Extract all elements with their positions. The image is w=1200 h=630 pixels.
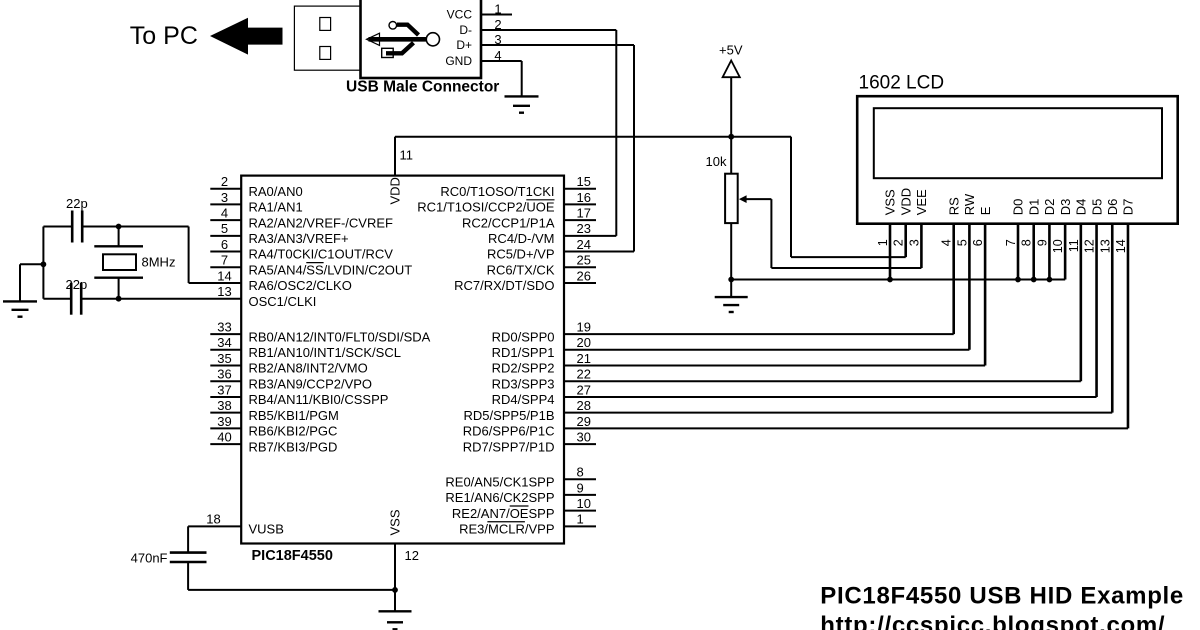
crystal X1 top plate bbox=[94, 245, 143, 247]
svg-text:RD3/SPP3: RD3/SPP3 bbox=[492, 376, 555, 391]
svg-text:RA5/AN4/SS/LVDIN/C2OUT: RA5/AN4/SS/LVDIN/C2OUT bbox=[249, 262, 413, 277]
svg-text:RD7/SPP7/P1D: RD7/SPP7/P1D bbox=[463, 439, 555, 454]
svg-text:26: 26 bbox=[577, 268, 591, 283]
svg-text:10: 10 bbox=[577, 496, 591, 511]
svg-text:6: 6 bbox=[971, 239, 985, 246]
svg-text:9: 9 bbox=[1035, 239, 1049, 246]
svg-text:14: 14 bbox=[1114, 239, 1128, 253]
svg-text:3: 3 bbox=[221, 190, 228, 205]
svg-text:RB5/KBI1/PGM: RB5/KBI1/PGM bbox=[249, 408, 339, 423]
wire LCD D4 riser bbox=[1080, 224, 1083, 382]
svg-text:1: 1 bbox=[876, 239, 890, 246]
USB trident arrowhead (left) bbox=[367, 33, 380, 45]
svg-text:RB4/AN11/KBI0/CSSPP: RB4/AN11/KBI0/CSSPP bbox=[249, 392, 389, 407]
wire crystal ground drop bbox=[19, 264, 21, 301]
wire wiper to VEE: down bbox=[770, 199, 772, 268]
USB male connector plug housing outline bbox=[294, 6, 360, 70]
svg-text:28: 28 bbox=[577, 398, 591, 413]
chip pin 3 stub (left) bbox=[210, 203, 241, 205]
svg-text:6: 6 bbox=[221, 237, 228, 252]
svg-text:8MHz: 8MHz bbox=[142, 254, 176, 269]
svg-text:13: 13 bbox=[217, 284, 231, 299]
USB trident small circle bbox=[389, 22, 397, 30]
svg-text:VDD: VDD bbox=[898, 188, 913, 215]
wire LCD RS riser bbox=[952, 224, 955, 334]
capacitor C3 plate bottom bbox=[170, 561, 207, 564]
svg-text:2: 2 bbox=[892, 239, 906, 246]
wire RC5 pin 24 horizontal bbox=[564, 251, 634, 253]
wire wiper to VEE: right2 bbox=[771, 267, 921, 269]
node +5V rail junction bbox=[728, 134, 734, 140]
USB trident stem bbox=[369, 37, 428, 42]
svg-text:7: 7 bbox=[1004, 239, 1018, 246]
wire OSC1 left segment bbox=[43, 298, 70, 300]
USB connector body box U1 bbox=[361, 0, 482, 78]
svg-text:VCC: VCC bbox=[447, 8, 473, 22]
svg-text:10: 10 bbox=[1051, 239, 1065, 253]
svg-text:24: 24 bbox=[577, 237, 591, 252]
svg-text:RC7/RX/DT/SDO: RC7/RX/DT/SDO bbox=[454, 278, 554, 293]
svg-text:D-: D- bbox=[459, 23, 472, 37]
wire LCD D7 riser bbox=[1127, 224, 1130, 429]
overbar UOE (RC1) bbox=[526, 199, 554, 201]
svg-text:RD6/SPP6/P1C: RD6/SPP6/P1C bbox=[463, 424, 555, 439]
svg-text:D4: D4 bbox=[1074, 199, 1089, 216]
svg-text:22: 22 bbox=[577, 367, 591, 382]
wire LCD ground rail bbox=[731, 279, 1065, 281]
node D0 ground junction bbox=[1015, 277, 1021, 283]
resistor RV1 10k potentiometer body bbox=[725, 174, 738, 223]
wire LCD VDD riser bbox=[904, 224, 907, 257]
svg-text:38: 38 bbox=[217, 398, 231, 413]
chip pin 39 stub (left) bbox=[210, 427, 241, 429]
capacitor C2 plate left bbox=[70, 283, 73, 315]
svg-text:4: 4 bbox=[221, 206, 228, 221]
wire LCD VSS riser bbox=[889, 224, 892, 280]
svg-text:12: 12 bbox=[405, 548, 419, 563]
wire VUSB pin 18 bbox=[188, 525, 241, 527]
svg-text:PIC18F4550 USB HID Example: PIC18F4550 USB HID Example bbox=[820, 583, 1184, 610]
svg-text:3: 3 bbox=[907, 239, 921, 246]
svg-text:30: 30 bbox=[577, 429, 591, 444]
svg-text:7: 7 bbox=[221, 253, 228, 268]
wire D+ vertical to RC5 bbox=[633, 45, 635, 252]
node D1 ground junction bbox=[1031, 277, 1037, 283]
+5V arrow symbol bbox=[723, 61, 740, 78]
node crystal ground junction bbox=[41, 261, 47, 267]
svg-text:RE1/AN6/CK2SPP: RE1/AN6/CK2SPP bbox=[445, 490, 554, 505]
svg-text:RD1/SPP1: RD1/SPP1 bbox=[492, 345, 555, 360]
node VSS-ground junction bbox=[887, 277, 893, 283]
svg-text:RE2/AN7/OESPP: RE2/AN7/OESPP bbox=[452, 506, 555, 521]
USB plug contact square lower bbox=[320, 47, 331, 60]
svg-text:RA0/AN0: RA0/AN0 bbox=[249, 184, 303, 199]
svg-text:22p: 22p bbox=[66, 277, 88, 292]
wire LCD D0 riser to ground rail bbox=[1017, 224, 1020, 280]
svg-text:39: 39 bbox=[217, 414, 231, 429]
svg-text:RC0/T1OSO/T1CKI: RC0/T1OSO/T1CKI bbox=[440, 184, 554, 199]
svg-text:D7: D7 bbox=[1121, 199, 1136, 216]
svg-text:11: 11 bbox=[1067, 239, 1081, 252]
LCD module box bbox=[857, 96, 1177, 224]
arrow to PC bbox=[210, 18, 283, 55]
chip pin 30 stub (right) bbox=[564, 443, 596, 445]
capacitor C1 plate right bbox=[81, 211, 84, 243]
LCD screen inner rectangle bbox=[874, 108, 1162, 178]
wire RA6 drop bbox=[188, 227, 190, 283]
USB trident big circle bbox=[426, 33, 439, 46]
svg-text:RA4/T0CKI/C1OUT/RCV: RA4/T0CKI/C1OUT/RCV bbox=[249, 247, 394, 262]
svg-text:34: 34 bbox=[217, 335, 231, 350]
wire LCD E riser bbox=[984, 224, 987, 366]
wire OSC1 to chip (pin 13) bbox=[82, 298, 241, 300]
capacitor C3 plate top bbox=[170, 551, 207, 554]
svg-text:RC6/TX/CK: RC6/TX/CK bbox=[487, 262, 555, 277]
svg-text:RB3/AN9/CCP2/VPO: RB3/AN9/CCP2/VPO bbox=[249, 376, 373, 391]
svg-text:14: 14 bbox=[217, 268, 231, 283]
svg-text:OSC1/CLKI: OSC1/CLKI bbox=[249, 294, 317, 309]
svg-text:RB7/KBI3/PGD: RB7/KBI3/PGD bbox=[249, 439, 338, 454]
wire LCD RS to chip pin 19 bbox=[564, 333, 954, 335]
wire LCD VEE riser bbox=[920, 224, 923, 268]
svg-text:23: 23 bbox=[577, 221, 591, 236]
svg-text:RC4/D-/VM: RC4/D-/VM bbox=[488, 231, 554, 246]
svg-text:RA1/AN1: RA1/AN1 bbox=[249, 200, 303, 215]
svg-text:36: 36 bbox=[217, 367, 231, 382]
svg-text:RD5/SPP5/P1B: RD5/SPP5/P1B bbox=[463, 408, 554, 423]
wire USB GND down bbox=[521, 61, 523, 96]
svg-text:470nF: 470nF bbox=[131, 550, 168, 565]
wire +5V to LCD VDD: down bbox=[790, 137, 792, 257]
wire LCD D5 riser bbox=[1095, 224, 1098, 397]
wire USB D+ : pin3 to RC5 riser bbox=[481, 44, 634, 46]
chip pin 10 stub (right) bbox=[564, 510, 596, 512]
chip pin 7 stub (left) bbox=[210, 266, 241, 268]
svg-text:2: 2 bbox=[221, 174, 228, 189]
capacitor C2 plate right bbox=[80, 283, 83, 315]
crystal X1 bottom plate bbox=[94, 277, 143, 279]
chip pin 38 stub (left) bbox=[210, 412, 241, 414]
overbar OE (RE2) bbox=[510, 505, 529, 507]
svg-text:VSS: VSS bbox=[883, 189, 898, 215]
svg-text:5: 5 bbox=[955, 239, 969, 246]
wire +5V to LCD VDD: right bbox=[791, 256, 906, 258]
chip pin 26 stub (right) bbox=[564, 282, 596, 284]
wire VDD riser (pin 11) bbox=[394, 137, 396, 176]
USB plug contact square upper bbox=[320, 18, 331, 31]
wire +5V rail horizontal bbox=[395, 136, 791, 138]
svg-text:RB6/KBI2/PGC: RB6/KBI2/PGC bbox=[249, 424, 338, 439]
chip pin 35 stub (left) bbox=[210, 365, 241, 367]
wire crystal top left segment bbox=[43, 226, 71, 228]
svg-text:40: 40 bbox=[217, 429, 231, 444]
wire VUSB down to C3 bbox=[187, 526, 189, 552]
PIC18F4550 chip body U2 bbox=[241, 176, 564, 544]
wire LCD D3 riser to ground rail bbox=[1064, 224, 1067, 280]
svg-text:D0: D0 bbox=[1011, 199, 1026, 216]
wire pot bottom bbox=[730, 223, 732, 297]
capacitor C1 plate left bbox=[71, 211, 74, 243]
wire crystal top plate riser bbox=[118, 227, 120, 247]
wire LCD D7 to chip pin 29 bbox=[564, 427, 1128, 429]
svg-text:VEE: VEE bbox=[914, 189, 929, 215]
chip pin 15 stub (right) bbox=[564, 188, 596, 190]
wire C3 to VSS ground bbox=[188, 589, 395, 591]
svg-text:D+: D+ bbox=[456, 38, 472, 52]
chip pin 40 stub (left) bbox=[210, 443, 241, 445]
svg-text:35: 35 bbox=[217, 351, 231, 366]
wire crystal left vertical bbox=[42, 227, 44, 299]
wire LCD D4 to chip pin 22 bbox=[564, 380, 1081, 382]
node crystal top junction bbox=[116, 224, 122, 230]
chip pin 4 stub (left) bbox=[210, 219, 241, 221]
wire wiper to VEE: right bbox=[745, 198, 771, 200]
svg-text:RD0/SPP0: RD0/SPP0 bbox=[492, 329, 555, 344]
svg-text:17: 17 bbox=[577, 206, 591, 221]
wire LCD D6 riser bbox=[1111, 224, 1114, 413]
chip pin 33 stub (left) bbox=[210, 333, 241, 335]
svg-text:To PC: To PC bbox=[130, 22, 198, 50]
wire RA6 to chip bbox=[189, 282, 242, 284]
svg-text:37: 37 bbox=[217, 382, 231, 397]
svg-text:10k: 10k bbox=[706, 154, 727, 169]
svg-text:RE0/AN5/CK1SPP: RE0/AN5/CK1SPP bbox=[445, 474, 554, 489]
ground (potentiometer) bbox=[715, 296, 748, 298]
wire LCD D1 riser to ground rail bbox=[1032, 224, 1035, 280]
svg-text:RE3/MCLR/VPP: RE3/MCLR/VPP bbox=[459, 522, 554, 537]
svg-text:D5: D5 bbox=[1089, 199, 1104, 216]
svg-text:RB1/AN10/INT1/SCK/SCL: RB1/AN10/INT1/SCK/SCL bbox=[249, 345, 401, 360]
svg-text:25: 25 bbox=[577, 253, 591, 268]
wire +5V down to rail bbox=[730, 77, 732, 174]
wire crystal ground stub bbox=[20, 263, 43, 265]
chip pin 37 stub (left) bbox=[210, 396, 241, 398]
svg-text:RA3/AN3/VREF+: RA3/AN3/VREF+ bbox=[249, 231, 349, 246]
svg-text:VUSB: VUSB bbox=[249, 522, 284, 537]
svg-text:4: 4 bbox=[940, 239, 954, 246]
USB trident lower branch bbox=[386, 43, 414, 54]
wire RC4 pin 23 horizontal bbox=[564, 235, 616, 237]
wire VSS riser (pin 12) bbox=[394, 544, 396, 612]
ground (crystal) bbox=[3, 300, 37, 302]
svg-text:9: 9 bbox=[577, 480, 584, 495]
svg-text:RA6/OSC2/CLKO: RA6/OSC2/CLKO bbox=[249, 278, 352, 293]
svg-text:E: E bbox=[978, 206, 993, 215]
wire USB GND stub bbox=[481, 60, 522, 62]
svg-text:RD4/SPP4: RD4/SPP4 bbox=[492, 392, 555, 407]
wire USB D- : pin2 to RC4 riser bbox=[481, 29, 616, 31]
svg-text:D2: D2 bbox=[1042, 199, 1057, 216]
svg-text:D3: D3 bbox=[1058, 199, 1073, 216]
chip pin 16 stub (right) bbox=[564, 203, 596, 205]
wire LCD RW to chip pin 20 bbox=[564, 349, 969, 351]
chip pin 14 stub (left) bbox=[210, 282, 241, 284]
svg-text:USB Male Connector: USB Male Connector bbox=[346, 79, 499, 96]
svg-text:22p: 22p bbox=[66, 196, 88, 211]
chip pin 17 stub (right) bbox=[564, 219, 596, 221]
chip pin 2 stub (left) bbox=[210, 188, 241, 190]
chip pin 6 stub (left) bbox=[210, 251, 241, 253]
wire LCD D2 riser to ground rail bbox=[1048, 224, 1051, 280]
chip pin 36 stub (left) bbox=[210, 380, 241, 382]
wire LCD D5 to chip pin 27 bbox=[564, 396, 1097, 398]
svg-text:RS: RS bbox=[946, 197, 961, 215]
svg-text:D1: D1 bbox=[1026, 199, 1041, 216]
svg-text:RC5/D+/VP: RC5/D+/VP bbox=[487, 247, 555, 262]
potentiometer wiper arrow bbox=[739, 195, 747, 203]
crystal X1 body bbox=[103, 254, 136, 270]
svg-text:18: 18 bbox=[206, 512, 220, 527]
wire crystal bottom plate riser bbox=[118, 278, 120, 299]
node D2 ground junction bbox=[1047, 277, 1053, 283]
svg-text:RB0/AN12/INT0/FLT0/SDI/SDA: RB0/AN12/INT0/FLT0/SDI/SDA bbox=[249, 329, 431, 344]
node VSS ground junction bbox=[392, 587, 398, 593]
svg-text:RB2/AN8/INT2/VMO: RB2/AN8/INT2/VMO bbox=[249, 361, 368, 376]
svg-text:21: 21 bbox=[577, 351, 591, 366]
svg-text:29: 29 bbox=[577, 414, 591, 429]
USB trident small square bbox=[382, 48, 394, 57]
wire LCD RW riser bbox=[968, 224, 971, 350]
svg-text:GND: GND bbox=[445, 54, 472, 68]
svg-text:11: 11 bbox=[400, 148, 414, 163]
svg-text:PIC18F4550: PIC18F4550 bbox=[252, 548, 333, 564]
svg-text:RD2/SPP2: RD2/SPP2 bbox=[492, 361, 555, 376]
svg-text:27: 27 bbox=[577, 382, 591, 397]
svg-text:RC2/CCP1/P1A: RC2/CCP1/P1A bbox=[462, 215, 555, 230]
wire LCD E to chip pin 21 bbox=[564, 365, 985, 367]
chip pin 8 stub (right) bbox=[564, 478, 596, 480]
chip pin 9 stub (right) bbox=[564, 494, 596, 496]
svg-text:8: 8 bbox=[1020, 239, 1034, 246]
svg-text:5: 5 bbox=[221, 221, 228, 236]
svg-text:RA2/AN2/VREF-/CVREF: RA2/AN2/VREF-/CVREF bbox=[249, 215, 394, 230]
svg-text:http://ccspicc.blogspot.com/: http://ccspicc.blogspot.com/ bbox=[820, 612, 1165, 630]
svg-text:12: 12 bbox=[1083, 239, 1097, 253]
svg-text:8: 8 bbox=[577, 465, 584, 480]
svg-text:33: 33 bbox=[217, 320, 231, 335]
svg-text:+5V: +5V bbox=[719, 43, 743, 58]
svg-text:1602 LCD: 1602 LCD bbox=[859, 73, 945, 94]
svg-text:16: 16 bbox=[577, 190, 591, 205]
svg-text:RW: RW bbox=[962, 193, 977, 215]
node crystal bottom junction bbox=[116, 296, 122, 302]
overbar MCLR (RE3) bbox=[487, 521, 525, 523]
chip pin 25 stub (right) bbox=[564, 266, 596, 268]
svg-text:VDD: VDD bbox=[387, 177, 402, 204]
svg-text:20: 20 bbox=[577, 335, 591, 350]
chip pin 5 stub (left) bbox=[210, 235, 241, 237]
ground (USB GND) bbox=[505, 95, 539, 97]
svg-text:15: 15 bbox=[577, 174, 591, 189]
USB trident upper branch bbox=[397, 25, 419, 35]
wire C3 bottom down bbox=[187, 562, 189, 590]
overbar SS (RA5) bbox=[306, 262, 323, 264]
svg-text:19: 19 bbox=[577, 320, 591, 335]
chip pin 1 stub (right) bbox=[564, 525, 596, 527]
svg-text:VSS: VSS bbox=[387, 509, 402, 535]
chip pin 34 stub (left) bbox=[210, 349, 241, 351]
wire D- vertical to RC4 bbox=[615, 30, 617, 236]
USB pin 1 VCC stub bbox=[481, 14, 512, 16]
wire crystal top right segment bbox=[83, 226, 188, 228]
svg-text:RC1/T1OSI/CCP2/UOE: RC1/T1OSI/CCP2/UOE bbox=[417, 200, 555, 215]
ground (VSS) bbox=[379, 610, 412, 612]
wire LCD D6 to chip pin 28 bbox=[564, 412, 1112, 414]
svg-text:D6: D6 bbox=[1105, 199, 1120, 216]
svg-text:13: 13 bbox=[1098, 239, 1112, 253]
node pot ground junction bbox=[728, 277, 734, 283]
svg-text:1: 1 bbox=[577, 512, 584, 527]
